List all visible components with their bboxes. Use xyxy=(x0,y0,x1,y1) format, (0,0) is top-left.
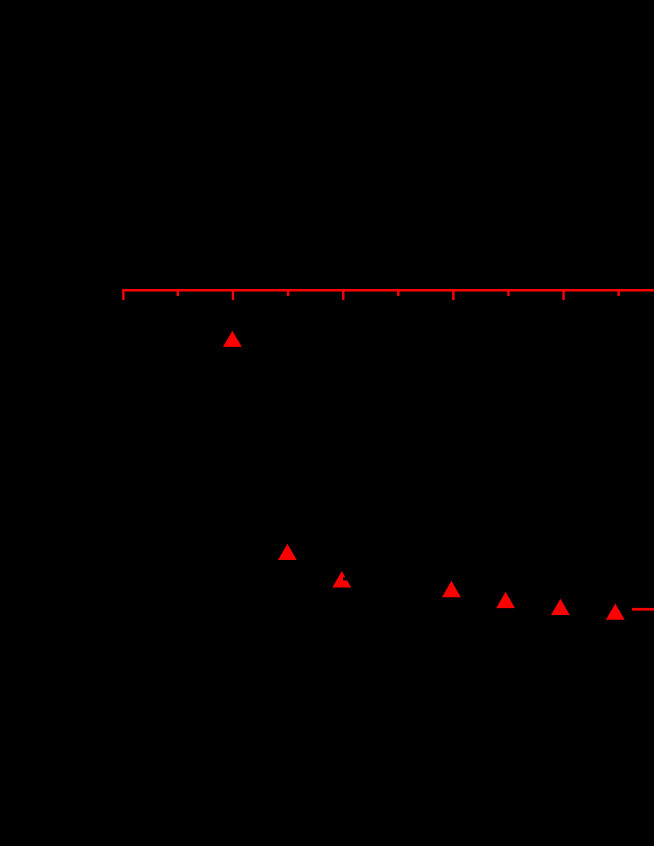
major tick 1 xyxy=(122,289,124,300)
minor tick 3 xyxy=(397,289,399,296)
triangle marker 6 xyxy=(551,599,570,615)
triangle marker 7 xyxy=(606,604,625,620)
triangle marker 2 xyxy=(278,544,297,560)
red dash segment at right edge xyxy=(632,608,654,611)
minor tick 5 xyxy=(617,289,619,296)
triangle marker 1 xyxy=(223,331,242,347)
major tick 4 xyxy=(452,289,454,300)
occlusion notch on marker 3 xyxy=(343,577,348,580)
minor tick 4 xyxy=(507,289,509,296)
triangle marker 3 xyxy=(332,571,351,587)
major tick 2 xyxy=(232,289,234,300)
triangle marker 4 xyxy=(442,581,461,597)
major tick 5 xyxy=(562,289,564,300)
minor tick 1 xyxy=(177,289,179,296)
major tick 3 xyxy=(342,289,344,300)
minor tick 2 xyxy=(287,289,289,296)
axis line (red top spine) xyxy=(122,289,654,292)
triangle marker 5 xyxy=(496,592,515,608)
